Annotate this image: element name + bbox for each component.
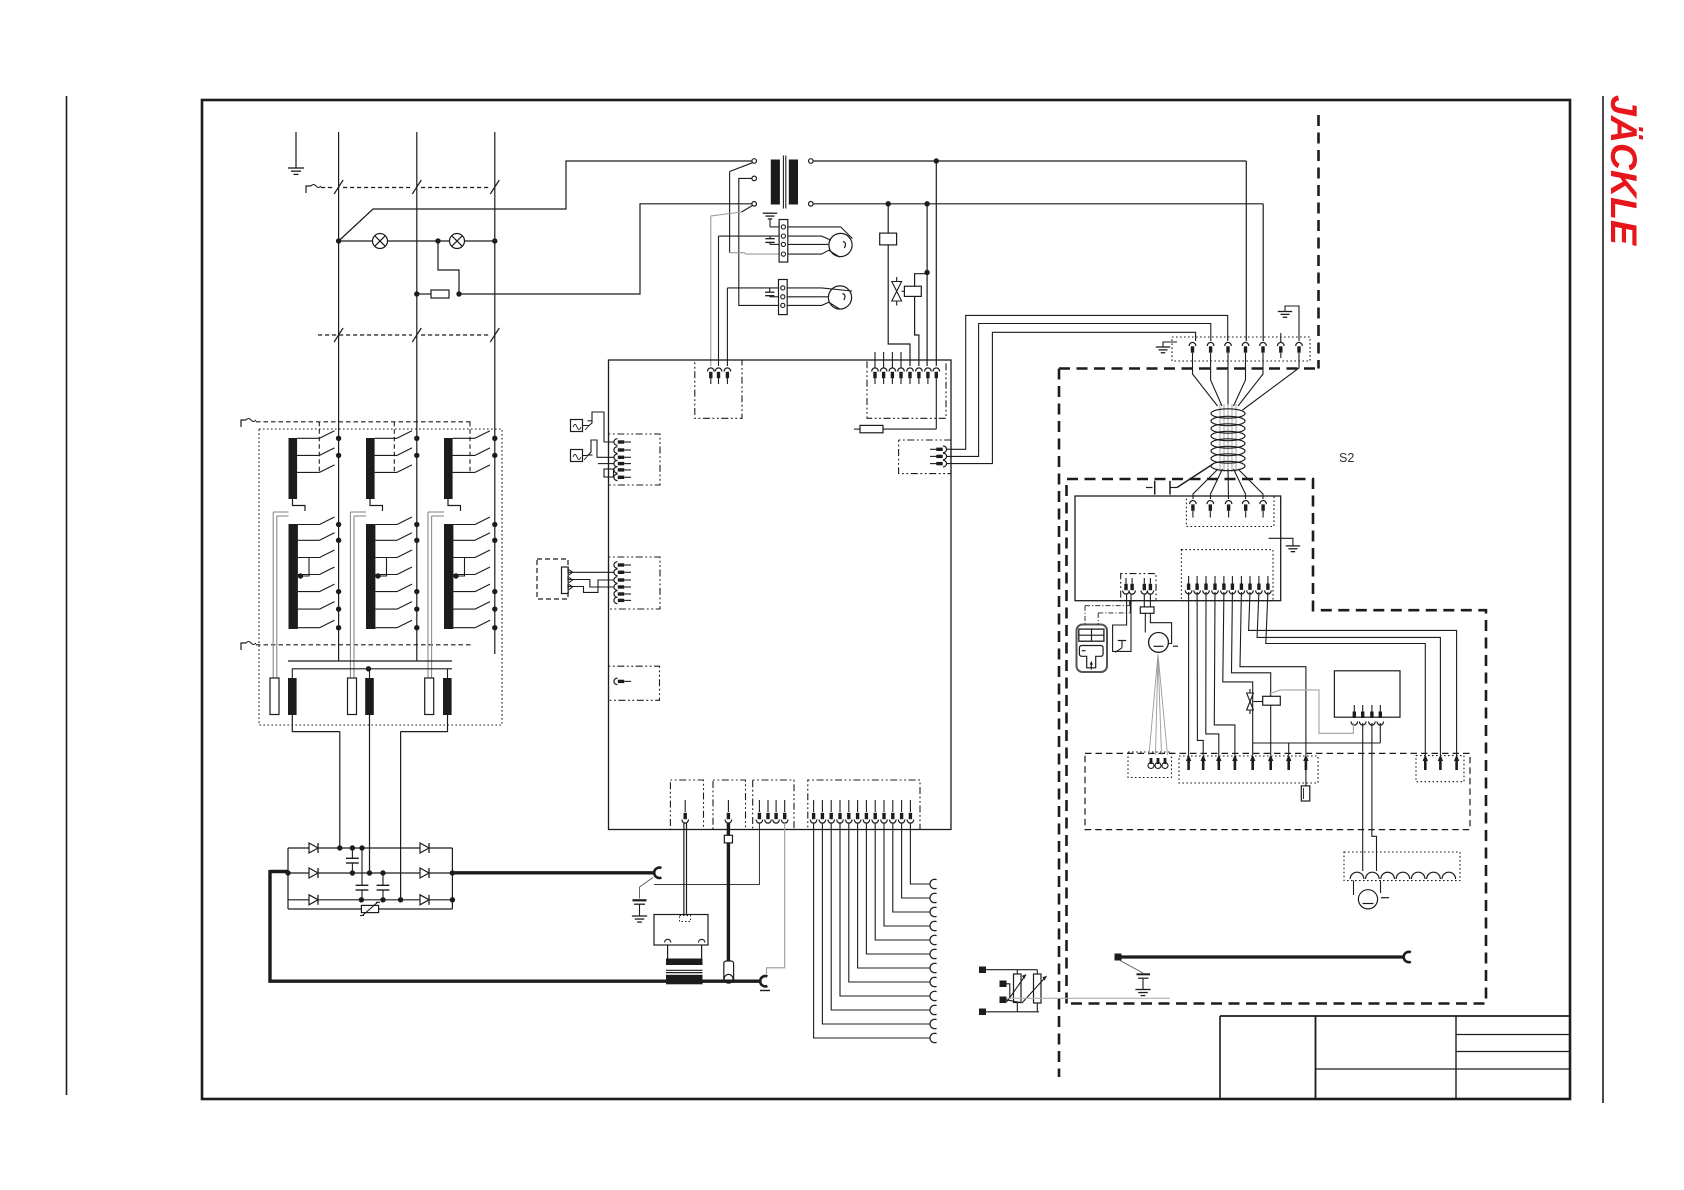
control PCB A1 — [609, 360, 952, 830]
double wire X7 to HF transformer — [683, 823, 685, 915]
lamp wire — [339, 240, 373, 242]
phase line L3 — [494, 132, 496, 654]
rectifier right rail — [451, 848, 453, 909]
phase line L1 — [338, 132, 340, 661]
T1.2 centre tap — [375, 573, 380, 578]
transformer T1.3 primary core — [444, 438, 453, 499]
wire lamp junction to fuse — [438, 241, 459, 294]
T1.3 core step — [448, 499, 461, 511]
pilot lamp H2 — [450, 234, 465, 249]
sensor B1 — [571, 420, 583, 432]
diode row 2 — [288, 872, 309, 874]
HF ignition unit — [654, 915, 708, 946]
JÄCKLE logo — [1604, 95, 1644, 245]
rectifier left rail — [287, 848, 289, 909]
page border right — [1602, 96, 1604, 1103]
wire to PCB pin8 — [935, 161, 937, 366]
fuse F1 — [431, 290, 449, 298]
T2 tap switch arm bottom — [742, 206, 753, 212]
wire to control transformer primary top tap — [339, 161, 752, 241]
wire valve to PCB pin6 — [915, 296, 919, 366]
gas valve Y1 body — [892, 282, 902, 302]
A3 pin2 wire to spool — [1362, 723, 1364, 871]
wire relay to PCB pin5 — [888, 245, 910, 366]
connector X6 on PCB left edge lower — [609, 666, 660, 700]
HF transformer windings — [667, 945, 669, 959]
transformer T1.1 primary core — [289, 438, 298, 499]
T2 tap switch arm top — [730, 163, 753, 172]
connector X20 strip — [1186, 496, 1274, 527]
T1.3 centre tap — [453, 573, 458, 578]
ground at meter block — [769, 220, 771, 227]
voltmeter P2 — [828, 286, 851, 309]
potentiometer R11 — [1034, 974, 1042, 1003]
varistor R2 — [361, 905, 378, 912]
secondary bus 1 — [288, 660, 452, 662]
wire meter2 to connector X1 pin3 — [726, 288, 728, 366]
T1.2 secondary output wires — [349, 512, 351, 678]
gray pot wire — [1007, 997, 1170, 999]
pot wiring — [986, 969, 1037, 971]
gray wire bottom arm to connector X1 pin1 — [711, 212, 742, 366]
voltage sense wire from terminal — [640, 878, 654, 888]
wire secondary to S2 plug pin4 — [1245, 161, 1247, 341]
gas valve Y2 body — [1247, 693, 1254, 710]
screen wire to capacitor — [1177, 464, 1213, 488]
remote tap-change dashed row top — [241, 420, 246, 427]
meter connector block X10 — [779, 220, 788, 263]
secondary bus 2 — [292, 668, 452, 670]
ground at S2 plug right — [1285, 306, 1299, 341]
pot wipers — [1007, 984, 1010, 999]
wire feed motor M1 — [1149, 633, 1169, 653]
T1.1 primary taps — [297, 437, 319, 439]
switch contact slashes Q1 — [334, 180, 343, 194]
choke L3 bars — [425, 678, 434, 715]
ammeter P1 — [829, 233, 852, 256]
tap arm riser to meter block pin4 — [729, 172, 731, 253]
ground inside A2 — [1269, 538, 1293, 546]
T2 secondary circles — [809, 159, 814, 164]
sensor B2 — [571, 450, 583, 462]
PCB bottom connector X12 wide — [808, 780, 920, 830]
T1.2 core step — [370, 499, 383, 511]
contactor K1 dashed row — [318, 334, 412, 336]
pin6 stub — [1280, 333, 1282, 343]
sense wire to X9 pin1 — [654, 823, 759, 884]
T1.3 secondary output wires — [427, 512, 429, 678]
trigger leads dash-dot — [1085, 605, 1130, 607]
T2 primary tap circles — [752, 159, 757, 164]
wire feeder dashed enclosure — [1067, 479, 1487, 1004]
T1.1 centre tap — [298, 573, 303, 578]
current shunt R-shunt — [727, 823, 730, 961]
capacitor at meter block 1 — [769, 236, 771, 239]
cable bundle lower fan — [1193, 469, 1218, 499]
potentiometer terminals — [979, 967, 986, 974]
fan of control wires to hooks — [814, 823, 930, 1038]
motor tacho wires — [1149, 655, 1158, 755]
ground symbol mains PE — [295, 132, 297, 168]
phase line L2 — [416, 132, 418, 661]
connector X3 on PCB right edge — [899, 440, 951, 474]
fuse F3 below X30 pin8 — [1305, 768, 1307, 786]
ground at S2 plug left — [1163, 342, 1177, 347]
choke stubs — [291, 669, 293, 678]
tap switch gang lines — [318, 422, 320, 474]
spool connector X33 — [1344, 852, 1460, 881]
transformer block outer dotted box — [259, 429, 502, 725]
cable bundle upper fan — [1193, 358, 1218, 406]
motor control box A3 — [1334, 671, 1400, 717]
connector X32 strip — [1416, 756, 1464, 782]
connector X4 on PCB left edge — [609, 557, 661, 609]
choke L2 bars — [348, 678, 357, 715]
capacitor to ground at terminal — [633, 899, 647, 901]
capacitor to chassis — [1146, 487, 1153, 489]
connector X1 on PCB top left — [695, 360, 742, 418]
snubber cap C1 — [351, 848, 353, 858]
capacitor at meter block 2 — [769, 288, 771, 292]
T2 secondary bar — [789, 160, 798, 205]
potentiometer R10 — [1014, 974, 1022, 1003]
gas valve Y2 coil — [1263, 696, 1281, 705]
fuse F2 inside PCB — [935, 384, 937, 429]
gray wire coil to A3 pin1 — [1269, 690, 1353, 733]
remote tap-change dashed row bottom — [241, 643, 246, 650]
page border left — [66, 96, 68, 1095]
T1.1 secondary output wires — [272, 512, 274, 678]
snubber cap C3 — [382, 873, 384, 885]
rectifier bottom rail with varistor — [288, 908, 361, 910]
bridge junction dots — [337, 845, 342, 850]
title block — [1220, 1015, 1570, 1017]
pilot lamp H1 — [373, 234, 388, 249]
T2 secondary top wire — [813, 160, 1246, 162]
T1.3 secondary taps — [453, 524, 475, 526]
PCB bottom connector X7 — [670, 780, 703, 830]
torch lead capacitor to ground — [1120, 961, 1143, 974]
T2 middle tap wire to meter block — [739, 178, 779, 305]
T1.3 secondary core — [444, 524, 453, 629]
T2 core lines — [782, 156, 784, 209]
bus wire y743 — [1253, 742, 1381, 744]
gray wire X9 pin4 to output terminal — [767, 823, 785, 974]
feeder wiring harness — [1188, 592, 1190, 755]
thick positive bus — [270, 870, 288, 873]
wire fuse to transformer bottom tap — [459, 204, 752, 294]
T1.2 secondary core — [366, 524, 375, 629]
wire secondary to S2 plug pin5 — [1262, 204, 1264, 341]
main switch Q1 dashed row — [306, 186, 311, 193]
T1.3 primary taps — [453, 437, 475, 439]
snubber cap C2 — [361, 848, 363, 885]
thermal contact F4 — [1113, 595, 1131, 652]
control transformer T2 primary bar — [771, 160, 780, 205]
drawing frame — [202, 100, 1570, 1099]
external plug to X4 — [537, 559, 568, 599]
torch trigger switch — [1077, 625, 1108, 673]
feeder control box A2 — [1075, 496, 1281, 601]
connector X5 on PCB left edge upper — [609, 434, 661, 485]
torch current lead — [1115, 954, 1122, 961]
meter connector block X11 — [779, 280, 788, 315]
gas valve Y1 branch — [915, 274, 928, 287]
wire to PCB pin7 — [926, 204, 928, 366]
diode row 1 — [288, 847, 309, 849]
T2 secondary bottom wire — [813, 203, 1263, 205]
PCB bottom connector X8 — [713, 780, 746, 830]
transformer T1.2 primary core — [366, 438, 375, 499]
diode row 3 — [288, 899, 309, 901]
fuse on motor wires — [1143, 595, 1145, 607]
connector X21 strip — [1181, 550, 1273, 601]
T1.1 core step — [293, 499, 306, 511]
T1.2 secondary taps — [375, 524, 397, 526]
motor plug X22 — [1121, 574, 1156, 601]
phase feeds into bridge — [339, 732, 341, 848]
A3 pin3 wire to spool — [1372, 723, 1377, 871]
T1.2 primary taps — [375, 437, 397, 439]
feeder connector dashed box — [1085, 753, 1470, 829]
connector strip S2 socket — [1172, 337, 1310, 361]
connector X30 strip — [1179, 756, 1318, 783]
component on shunt wire — [724, 835, 732, 843]
motor connector X31 — [1128, 752, 1172, 778]
wire meter to connector X1 pin2 — [718, 236, 720, 366]
choke outputs to bridge — [292, 715, 340, 732]
relay K2 coil — [887, 204, 889, 233]
wire valve to motor PCB — [1270, 705, 1272, 755]
spool motor M2 — [1353, 881, 1355, 896]
T1.1 secondary taps — [298, 524, 320, 526]
thick output to torch terminal — [452, 871, 655, 874]
svg-text:S2: S2 — [1339, 451, 1354, 465]
gas valve Y1 coil — [904, 286, 921, 296]
choke L1 bars — [270, 678, 279, 715]
wires X3 to S2 plug pins 1-3 — [947, 315, 1228, 449]
connector X2 on PCB top right — [867, 360, 946, 418]
PCB bottom connector X9 — [753, 780, 794, 830]
cable coil loops — [1211, 409, 1245, 418]
sensor wiring to X5 — [583, 412, 614, 442]
machine boundary dashed left — [1058, 369, 1061, 1078]
machine boundary dashed vertical — [1317, 115, 1320, 369]
cable coil wires — [1219, 404, 1221, 472]
machine boundary dashed horizontal — [1059, 367, 1319, 370]
T1.1 secondary core — [289, 524, 298, 629]
